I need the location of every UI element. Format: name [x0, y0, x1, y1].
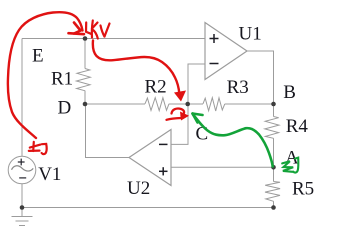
- annotation: red scribble near V1 top: [29, 142, 47, 154]
- annotation: green arrowhead pointing at node C: [193, 114, 203, 123]
- wire: U2 noninverting input to node A: [171, 166, 274, 168]
- source V1: [8, 156, 36, 184]
- wire: U2 output feedback to node D: [86, 104, 130, 158]
- svg-text:V1: V1: [38, 164, 61, 185]
- ground: [12, 208, 33, 226]
- annotation: red S-curve from top junction to node C: [93, 41, 179, 94]
- wire: node D to R2 left lead: [85, 103, 145, 105]
- resistor R3: [203, 98, 225, 111]
- node junction dots: [20, 36, 276, 210]
- svg-text:R5: R5: [292, 179, 314, 200]
- wire: R3 right lead to node B: [225, 103, 274, 105]
- annotation: green curve from node C to node A: [193, 115, 273, 167]
- wire: R2 right lead to node C: [169, 103, 188, 105]
- node: V1 / ground rail junction: [20, 205, 25, 210]
- wire: R5 bottom lead to ground rail: [273, 201, 275, 207]
- op-amp U1: [205, 23, 247, 80]
- wire: R1 bottom lead to node D: [84, 91, 86, 104]
- annotation: green scribble near node A: [282, 158, 298, 173]
- resistor R1: [76, 69, 90, 91]
- svg-text:B: B: [283, 82, 296, 103]
- op-amp U1 input polarity symbols: [210, 34, 219, 64]
- annotation: red loop arrow from V1 to top junction: [8, 12, 83, 138]
- op-amp U2: [129, 130, 171, 186]
- wire: bottom ground rail: [22, 207, 274, 209]
- wire: R4 bottom lead to node A: [273, 138, 275, 167]
- wire: left vertical from top rail down to V1 top: [21, 39, 23, 157]
- svg-text:U1: U1: [239, 23, 262, 44]
- resistor R2: [145, 98, 169, 111]
- svg-text:D: D: [58, 98, 72, 119]
- svg-text:R2: R2: [145, 77, 167, 98]
- node D junction: [83, 102, 88, 107]
- annotation: red arrowhead of scribble below C: [180, 112, 189, 121]
- annotation: red arrowhead at node C: [174, 91, 186, 102]
- wire: node A to R5 top lead: [273, 167, 275, 181]
- resistor R4: [265, 117, 279, 139]
- annotation: red scribble below node C: [167, 109, 185, 120]
- annotation: red tick marks right of top junction: [86, 21, 110, 39]
- node B junction: [271, 102, 276, 107]
- node: R5 / ground rail junction: [271, 205, 276, 210]
- wire: node B to R4 top lead: [273, 104, 275, 117]
- wire: node C down to U2 inverting input: [171, 104, 188, 144]
- op-amp U2 input polarity symbols: [159, 144, 168, 175]
- wire: node C to R3 left lead: [188, 103, 203, 105]
- wire: U1 output to node B vertical: [247, 51, 274, 104]
- node A junction: [271, 165, 276, 170]
- node C junction: [185, 102, 190, 107]
- wire: node C up to U1 inverting input: [188, 64, 205, 104]
- wire: R1 top lead from top-rail junction: [84, 39, 86, 69]
- annotation: red arrowhead at top junction: [69, 23, 85, 35]
- wire: V1 bottom to ground node: [21, 184, 23, 208]
- svg-text:R3: R3: [227, 77, 249, 98]
- source V1 polarity symbols and sine: [12, 159, 34, 178]
- node: top rail / R1 junction: [83, 36, 88, 41]
- svg-text:R1: R1: [51, 69, 73, 90]
- wire: top rail E to U1 + input: [22, 38, 205, 40]
- resistor R5: [265, 182, 280, 202]
- svg-text:R4: R4: [286, 116, 309, 137]
- svg-text:E: E: [32, 46, 44, 67]
- svg-text:U2: U2: [127, 178, 150, 199]
